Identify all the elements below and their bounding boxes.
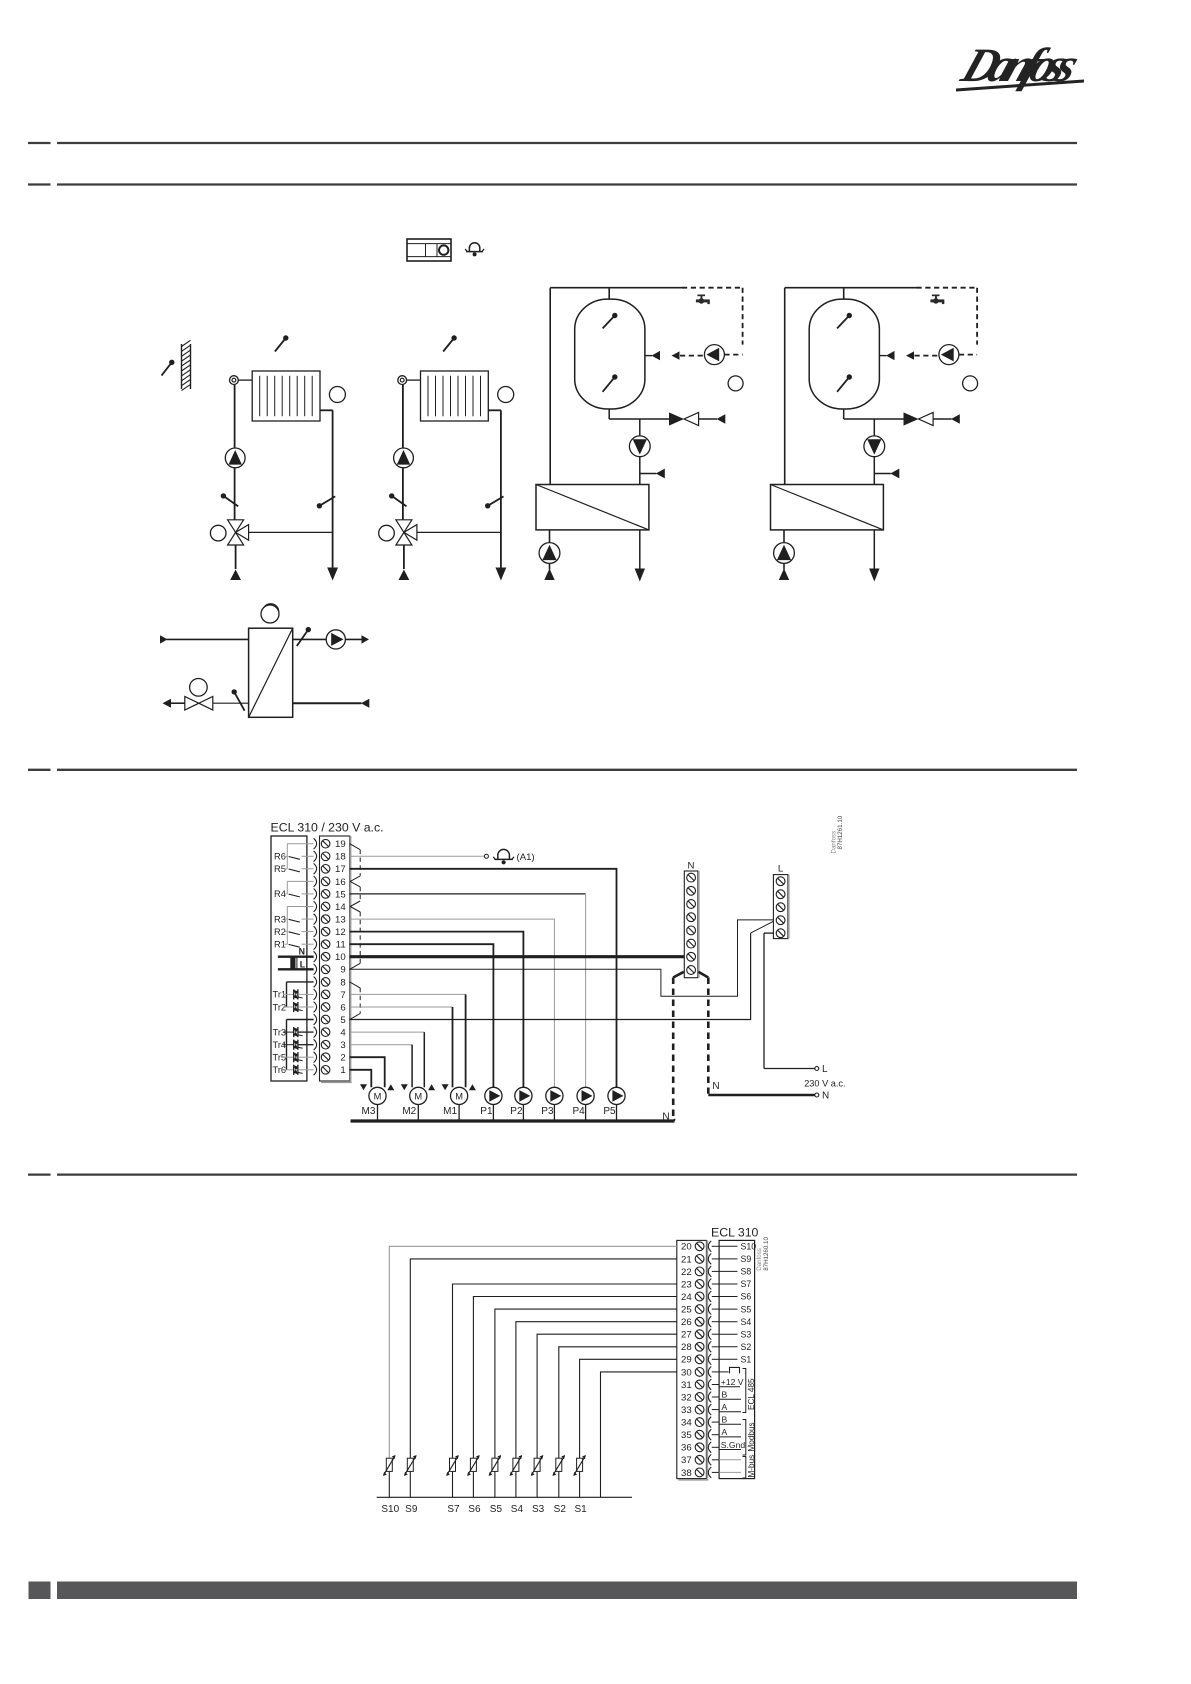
wire terminal 13 to P3 — [350, 919, 555, 1087]
tap icon 2 — [930, 295, 944, 305]
svg-text:M: M — [455, 1091, 463, 1101]
N distribution strip — [684, 871, 698, 978]
bracket Modbus — [743, 1420, 757, 1456]
label B ecl485 — [719, 1390, 741, 1400]
svg-text:29: 29 — [681, 1355, 692, 1366]
svg-text:23: 23 — [681, 1279, 692, 1290]
outdoor temperature sensor S1 wall — [162, 340, 191, 390]
svg-text:28: 28 — [681, 1342, 692, 1353]
svg-text:ECL 310 / 230 V a.c.: ECL 310 / 230 V a.c. — [271, 821, 384, 835]
sensor common bus — [377, 1496, 632, 1498]
svg-text:S1: S1 — [741, 1355, 752, 1365]
pump P2 — [515, 1087, 532, 1104]
alarm bell icon header — [465, 243, 484, 257]
sensor input label S9 — [719, 1258, 737, 1260]
svg-text:1: 1 — [340, 1065, 345, 1076]
svg-text:R5: R5 — [274, 864, 286, 874]
motor actuator M3 — [369, 1087, 386, 1104]
svg-text:S6: S6 — [741, 1292, 752, 1302]
terminal 12 — [314, 926, 317, 937]
wire terminal 7 to M1 — [350, 994, 466, 1087]
section rule applications-wiring — [28, 769, 1077, 771]
primary return pipe 2 — [873, 530, 875, 569]
wire terminal 17 to P5 — [350, 869, 617, 1088]
thermometer below circuit 1 — [263, 604, 279, 620]
svg-text:B: B — [722, 1415, 728, 1425]
radiator circuit 2 — [421, 371, 489, 421]
pump P4 — [577, 1087, 594, 1104]
terminal 13 — [314, 914, 317, 925]
pump P3 — [546, 1087, 563, 1104]
svg-text:R1: R1 — [274, 940, 286, 950]
DHW tank 1 — [575, 299, 645, 409]
tank sensor bottom 2 — [837, 377, 849, 392]
jumper terminal 30 — [719, 1367, 739, 1373]
tank drain pipe 2 — [844, 409, 904, 419]
wire terminal 3 to M2 — [350, 1045, 412, 1088]
return pipe circuit 1 — [320, 410, 333, 567]
label A ecl485 — [719, 1402, 741, 1412]
N bus bottom — [351, 1119, 675, 1122]
motor actuator M1 — [451, 1087, 468, 1104]
svg-text:P1: P1 — [480, 1106, 493, 1117]
wire terminal 2 to M3 — [350, 1057, 385, 1087]
charging sensor pocket 2 — [874, 469, 899, 479]
wire N supply — [708, 1091, 829, 1102]
sensor S7 — [453, 1284, 677, 1458]
sensor input label S4 — [719, 1321, 737, 1323]
wire terminal 4 to M2 — [350, 1032, 425, 1087]
terminal 3 — [314, 1039, 317, 1050]
heat exchanger 1 — [536, 485, 649, 530]
svg-text:P5: P5 — [603, 1106, 616, 1117]
air vent circuit 1 — [230, 376, 239, 385]
terminal 5 — [314, 1014, 317, 1025]
primary supply arrow 1 — [544, 569, 554, 581]
terminal 15 — [314, 889, 317, 900]
svg-text:38: 38 — [681, 1468, 692, 1479]
svg-text:14: 14 — [335, 902, 346, 913]
svg-text:N: N — [662, 1112, 669, 1123]
terminal 7 — [314, 989, 317, 1000]
dashed controller boundary — [350, 844, 361, 1020]
terminal 1 — [314, 1064, 317, 1075]
circulation arrow 2 — [906, 351, 914, 359]
svg-text:L: L — [822, 1064, 828, 1075]
wire terminal 12 to P2 — [350, 932, 524, 1088]
terminal strip 1-19 — [320, 836, 350, 1081]
svg-text:87H1261.10: 87H1261.10 — [837, 815, 844, 849]
sensor input label S7 — [719, 1283, 737, 1285]
pump circuit 1 — [225, 448, 245, 468]
svg-text:P2: P2 — [510, 1106, 523, 1117]
sensor S9 — [410, 1259, 677, 1458]
mains input N L — [278, 947, 314, 970]
sensor S2 — [559, 1347, 677, 1458]
supply sensor circuit 2 — [392, 496, 407, 507]
heat exchanger standalone — [249, 628, 293, 717]
label S.Gnd — [719, 1440, 745, 1450]
svg-text:87H1260.10: 87H1260.10 — [763, 1237, 770, 1271]
label A modbus — [719, 1427, 741, 1437]
aquastat 1 — [728, 376, 743, 391]
svg-text:M: M — [374, 1091, 382, 1101]
sensor input label S2 — [719, 1346, 737, 1348]
terminal 9 — [314, 964, 317, 975]
tank sensor top 2 — [837, 316, 849, 329]
bracket ECL 485 — [743, 1369, 757, 1413]
svg-text:12: 12 — [335, 927, 346, 938]
svg-text:7: 7 — [340, 990, 345, 1001]
svg-text:S1: S1 — [574, 1504, 587, 1515]
svg-text:6: 6 — [340, 1002, 345, 1013]
terminal strip 20-38 — [677, 1240, 707, 1478]
svg-text:+12 V: +12 V — [721, 1377, 744, 1387]
return arrow circuit 1 — [327, 568, 338, 581]
footer bar — [57, 1582, 1077, 1600]
circulation arrow 1 — [672, 351, 680, 359]
terminal 14 — [314, 901, 317, 912]
room unit circuit 1 — [329, 387, 345, 403]
valve branch pipe circuit 1 — [249, 531, 333, 533]
secondary pump — [326, 630, 345, 649]
svg-text:ECL 485: ECL 485 — [747, 1378, 756, 1410]
svg-text:P3: P3 — [541, 1106, 554, 1117]
pipe pump to valve circuit 1 — [234, 468, 236, 520]
svg-text:13: 13 — [335, 915, 346, 926]
flow sensor circuit 1 — [275, 338, 286, 352]
circulation pump 2 — [939, 345, 959, 365]
primary supply arrow 2 — [779, 569, 789, 581]
svg-text:S5: S5 — [741, 1304, 752, 1314]
DHW flow pipe top 1 — [550, 288, 682, 299]
sensor S3 — [537, 1334, 677, 1458]
wire terminal 9 L — [350, 920, 774, 996]
primary supply pipe 2 — [784, 288, 786, 485]
label B modbus — [719, 1415, 741, 1425]
primary supply pipe 1 — [549, 288, 551, 485]
svg-text:21: 21 — [681, 1254, 692, 1265]
svg-text:8: 8 — [340, 977, 345, 988]
primary return pipe 1 — [639, 530, 641, 569]
supply sensor circuit 1 — [223, 496, 238, 507]
svg-text:S7: S7 — [741, 1279, 752, 1289]
terminal 18 — [314, 851, 317, 862]
svg-text:2: 2 — [340, 1053, 345, 1064]
radiator circuit 1 — [252, 371, 320, 421]
relay common 14 — [287, 907, 313, 945]
svg-text:20: 20 — [681, 1242, 692, 1253]
relay common 19 — [287, 844, 313, 869]
svg-text:S2: S2 — [554, 1504, 567, 1515]
aquastat 2 — [963, 376, 978, 391]
svg-text:M2: M2 — [402, 1106, 416, 1117]
radiator connection wire 2 — [407, 379, 421, 381]
wire terminal 11 to P1 — [350, 944, 494, 1087]
svg-text:S4: S4 — [511, 1504, 524, 1515]
supply pipe circuit 1 — [234, 385, 236, 449]
svg-text:S8: S8 — [741, 1267, 752, 1277]
pipe below valve circuit 1 — [235, 545, 237, 569]
pipe below valve circuit 2 — [403, 545, 405, 569]
sensor S6 — [473, 1297, 676, 1459]
svg-text:N: N — [688, 861, 695, 872]
header rule 2 — [28, 183, 1077, 185]
wire terminal 15 to P4 — [350, 894, 586, 1087]
svg-text:35: 35 — [681, 1430, 692, 1441]
svg-text:19: 19 — [335, 839, 346, 850]
svg-text:10: 10 — [335, 952, 346, 963]
ECL device box — [719, 1240, 755, 1478]
return pipe circuit 2 — [488, 410, 501, 567]
room unit circuit 2 — [498, 387, 514, 403]
alarm bell A1 — [493, 849, 534, 864]
svg-text:S.Gnd: S.Gnd — [721, 1440, 746, 1450]
svg-text:N: N — [712, 1081, 719, 1092]
sensor input label S6 — [719, 1296, 737, 1298]
svg-text:M: M — [414, 1091, 422, 1101]
sensor input label S1 — [719, 1358, 737, 1360]
svg-text:Modbus: Modbus — [747, 1422, 756, 1451]
svg-text:4: 4 — [340, 1028, 346, 1039]
ECL 310 controller icon — [407, 239, 451, 261]
sensor S1 — [580, 1359, 677, 1458]
svg-text:S9: S9 — [405, 1504, 418, 1515]
circulation pump 1 — [704, 345, 724, 365]
svg-text:A: A — [722, 1402, 728, 1412]
sensor S10 — [389, 1246, 677, 1458]
svg-text:S5: S5 — [490, 1504, 503, 1515]
svg-text:L: L — [778, 864, 784, 875]
primary return arrow right — [361, 699, 369, 708]
check valve 2 — [904, 412, 960, 425]
wire terminal 18 to alarm — [350, 854, 489, 858]
svg-text:25: 25 — [681, 1305, 692, 1316]
svg-text:S10: S10 — [381, 1504, 399, 1515]
svg-text:P4: P4 — [572, 1106, 585, 1117]
header rule 1 — [28, 142, 1077, 144]
flow sensor circuit 2 — [443, 338, 454, 352]
svg-text:36: 36 — [681, 1443, 692, 1454]
svg-text:R3: R3 — [274, 914, 286, 924]
terminal 4 — [314, 1027, 317, 1038]
3-way motorized valve circuit 2 — [379, 520, 417, 545]
Danfoss logo — [954, 38, 1086, 91]
L distribution strip — [773, 875, 788, 939]
supply pipe circuit 2 — [402, 385, 404, 449]
svg-text:230 V a.c.: 230 V a.c. — [804, 1078, 845, 1088]
primary inlet arrow — [160, 635, 168, 643]
pipe pump to valve circuit 2 — [402, 468, 404, 520]
svg-text:37: 37 — [681, 1455, 692, 1466]
tank sensor top 1 — [603, 316, 615, 329]
N tent left dashed — [673, 972, 684, 1121]
terminal 10 — [314, 951, 317, 962]
svg-text:34: 34 — [681, 1418, 692, 1429]
svg-text:32: 32 — [681, 1392, 692, 1403]
primary inlet pipe — [167, 638, 249, 640]
circulation dashed pipe 2 — [915, 288, 978, 356]
pump circuit 2 — [394, 448, 414, 468]
svg-text:A: A — [722, 1427, 728, 1437]
tank nozzle 2 — [879, 351, 894, 360]
svg-text:M3: M3 — [362, 1106, 376, 1117]
wire terminal 10 N bus — [350, 955, 685, 958]
bracket M-bus — [743, 1455, 757, 1478]
charging pump 1 — [629, 419, 650, 485]
svg-text:S2: S2 — [741, 1342, 752, 1352]
sensor input label S8 — [719, 1270, 737, 1272]
footer square — [29, 1582, 51, 1600]
triac common 8 — [287, 982, 314, 1007]
radiator connection wire 1 — [238, 379, 252, 381]
secondary return arrow — [163, 699, 172, 708]
svg-text:18: 18 — [335, 852, 346, 863]
supply arrow circuit 2 — [399, 570, 410, 581]
svg-text:17: 17 — [335, 864, 346, 875]
control valve standalone — [185, 679, 213, 711]
svg-text:S9: S9 — [741, 1254, 752, 1264]
air vent circuit 2 — [398, 376, 407, 385]
svg-text:S3: S3 — [741, 1329, 752, 1339]
terminal 6 — [314, 1002, 317, 1013]
primary return arrow 1 — [635, 569, 645, 582]
svg-text:M1: M1 — [443, 1106, 457, 1117]
valve branch pipe circuit 2 — [417, 531, 501, 533]
secondary return pipe — [171, 702, 185, 704]
terminal 16 — [314, 876, 317, 887]
return sensor circuit 1 — [319, 496, 335, 505]
primary return arrow 2 — [869, 569, 879, 582]
svg-text:16: 16 — [335, 877, 346, 888]
svg-text:S6: S6 — [468, 1504, 481, 1515]
triac common 5 — [287, 1020, 314, 1070]
secondary flow pipe — [293, 638, 328, 640]
terminal 19 — [314, 838, 317, 849]
motor actuator M2 — [410, 1087, 427, 1104]
wire terminal 6 to M1 — [350, 1007, 453, 1087]
svg-text:S4: S4 — [741, 1317, 752, 1327]
check valve 1 — [669, 412, 725, 425]
sensor S5 — [495, 1309, 677, 1458]
svg-text:27: 27 — [681, 1330, 692, 1341]
svg-text:S3: S3 — [532, 1504, 545, 1515]
svg-text:ECL 310: ECL 310 — [711, 1226, 759, 1240]
charging pump 2 — [864, 419, 885, 485]
wire m-bus 37 — [719, 1459, 741, 1461]
svg-text:30: 30 — [681, 1367, 692, 1378]
svg-text:R2: R2 — [274, 927, 286, 937]
svg-text:S10: S10 — [741, 1242, 757, 1252]
wire terminal 30 ground — [601, 1372, 677, 1497]
primary return sensor — [234, 692, 244, 711]
valve to exchanger pipe — [213, 702, 249, 704]
secondary flow arrow line — [345, 638, 362, 640]
terminal 8 — [314, 977, 317, 988]
supply arrow circuit 1 — [230, 570, 241, 581]
svg-text:B: B — [722, 1390, 728, 1400]
svg-text:11: 11 — [336, 940, 346, 951]
svg-text:R4: R4 — [274, 889, 286, 899]
DHW tank 2 — [809, 299, 879, 409]
svg-text:22: 22 — [681, 1267, 692, 1278]
svg-text:26: 26 — [681, 1317, 692, 1328]
svg-text:15: 15 — [335, 889, 346, 900]
wire terminal 1 to M3 — [350, 1070, 372, 1088]
wire m-bus 38 — [719, 1471, 741, 1473]
label +12 V — [719, 1377, 744, 1387]
secondary flow arrow — [362, 635, 370, 643]
svg-text:31: 31 — [681, 1380, 692, 1391]
return sensor circuit 2 — [488, 496, 504, 505]
svg-text:R6: R6 — [274, 852, 286, 862]
svg-text:5: 5 — [340, 1015, 345, 1026]
tank sensor bottom 1 — [603, 377, 615, 392]
charging sensor pocket 1 — [640, 469, 665, 479]
sensor input label S3 — [719, 1333, 737, 1335]
terminal 11 — [314, 939, 317, 950]
tank nozzle 1 — [645, 351, 660, 360]
DHW flow pipe top 2 — [785, 288, 917, 299]
sensor input label S10 — [719, 1245, 737, 1247]
svg-text:24: 24 — [681, 1292, 692, 1303]
sensor input label S5 — [719, 1308, 737, 1310]
terminal 2 — [314, 1052, 317, 1063]
svg-text:3: 3 — [340, 1040, 345, 1051]
primary pump 1 — [539, 530, 560, 570]
3-way motorized valve circuit 1 — [210, 520, 248, 545]
wire terminal 5 L — [350, 921, 774, 1019]
svg-text:9: 9 — [340, 965, 345, 976]
tank drain pipe 1 — [609, 409, 669, 419]
wire L supply — [764, 933, 828, 1075]
relay common 16 — [287, 881, 313, 894]
sensor S4 — [516, 1322, 677, 1458]
terminal 17 — [314, 863, 317, 874]
primary return line right — [293, 702, 362, 704]
section rule wiring-sensors — [28, 1173, 1077, 1175]
controller left box — [271, 836, 307, 1081]
return arrow circuit 2 — [496, 568, 507, 581]
svg-text:N: N — [822, 1091, 829, 1102]
svg-text:(A1): (A1) — [517, 852, 535, 863]
circulation dashed pipe 1 — [680, 288, 743, 356]
heat exchanger 2 — [771, 485, 884, 530]
svg-text:N: N — [299, 947, 305, 957]
pump P1 — [485, 1087, 502, 1104]
primary pump 2 — [774, 530, 795, 570]
pump P5 — [608, 1087, 625, 1104]
N tent right dashed — [698, 972, 708, 1094]
svg-text:S7: S7 — [447, 1504, 460, 1515]
secondary flow sensor — [297, 630, 309, 646]
tap icon 1 — [696, 295, 710, 305]
svg-text:33: 33 — [681, 1405, 692, 1416]
thermometer exchanger circuit — [261, 605, 279, 623]
svg-text:L: L — [300, 960, 306, 970]
svg-text:M-bus: M-bus — [747, 1455, 756, 1478]
